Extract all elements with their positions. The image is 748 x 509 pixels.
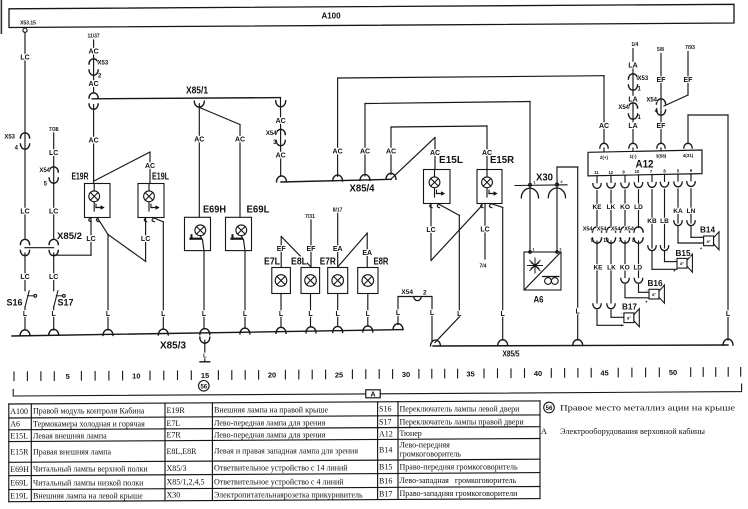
- svg-text:LN: LN: [687, 208, 696, 215]
- wire KA tuner A12 pin 5 to speaker B14: [673, 189, 683, 223]
- svg-text:L: L: [430, 310, 435, 317]
- svg-text:X54: X54: [266, 131, 277, 137]
- svg-text:X53: X53: [4, 135, 15, 141]
- svg-text:Право-передняя громкоговорител: Право-передняя громкоговоритель: [400, 463, 519, 472]
- svg-text:8: 8: [632, 238, 635, 244]
- svg-text:S16: S16: [379, 405, 391, 414]
- svg-text:EF: EF: [277, 246, 287, 253]
- svg-text:LC: LC: [86, 236, 95, 243]
- wire L lamp E69H to bus X85/3: [200, 251, 210, 335]
- lamp E8L rear-left vision lamp: [291, 256, 320, 293]
- bus X85/4: [277, 176, 392, 195]
- svg-text:12: 12: [608, 170, 613, 175]
- svg-text:L: L: [161, 311, 166, 318]
- svg-text:7/4: 7/4: [480, 264, 487, 270]
- wire LC X85/2 to switch S16: [20, 253, 29, 291]
- lamp E19R outer lamp on right roof: [72, 171, 111, 221]
- svg-text:3(58): 3(58): [656, 154, 667, 159]
- svg-text:E69H: E69H: [10, 465, 29, 474]
- svg-text:X85/1: X85/1: [186, 86, 208, 97]
- svg-text:L: L: [202, 311, 207, 318]
- svg-text:Электрооборудования верховной: Электрооборудования верховной кабины: [560, 427, 706, 436]
- connector X53 pin 4: [4, 133, 29, 152]
- svg-text:L: L: [396, 310, 401, 317]
- wire L lamp E8R to bus X85/3: [363, 294, 373, 332]
- svg-text:L: L: [52, 311, 57, 318]
- svg-text:X54: X54: [618, 105, 629, 111]
- svg-text:Право-западняя громкоговорител: Право-западняя громкоговорители: [400, 489, 519, 498]
- svg-text:5: 5: [66, 372, 70, 381]
- page edge mark: [1, 0, 3, 34]
- svg-text:Левая и правая западная лампа: Левая и правая западная лампа для зрения: [214, 447, 358, 456]
- svg-text:E15R: E15R: [490, 155, 515, 166]
- wire L lamp E7R to bus X85/3: [333, 294, 343, 333]
- svg-text:A100: A100: [321, 11, 341, 20]
- wire EA stub 8/17 to lamp E7R: [332, 207, 344, 267]
- svg-text:X85/4: X85/4: [350, 184, 375, 195]
- wire AC bus X85/1 to lamp E19R: [89, 105, 99, 184]
- svg-text:B14: B14: [700, 225, 715, 235]
- svg-text:AC: AC: [599, 123, 609, 130]
- svg-text:Переключатель лампы левой двер: Переключатель лампы левой двери: [400, 405, 521, 414]
- wire KE below connector X54 pin 9: [593, 241, 603, 309]
- svg-text:45: 45: [600, 369, 608, 378]
- svg-text:X85/5: X85/5: [503, 350, 520, 359]
- wire LC lamp E15L pin a with branch to lamp E15R pin a: [426, 204, 482, 261]
- thermobox A6 cold and hot box: [524, 247, 562, 305]
- wire L lamp E7L to bus X85/3: [276, 294, 286, 334]
- svg-text:Читальный лампы низкой полки: Читальный лампы низкой полки: [33, 478, 144, 487]
- svg-text:LC: LC: [141, 236, 150, 243]
- wire ground from X30 pin 2 over to bus X85/5: [557, 167, 583, 346]
- wire L from S17 to bus X85/3: [49, 307, 59, 336]
- wire ground tuner A12 pin 4(31) to bus X85/5: [684, 115, 733, 345]
- wire L lamp E19L pin b to bus X85/3: [153, 218, 169, 336]
- svg-text:E69L: E69L: [10, 478, 28, 487]
- svg-text:9: 9: [591, 238, 594, 244]
- svg-text:LC: LC: [20, 209, 29, 216]
- lamp E8R rear-right vision lamp: [358, 256, 389, 293]
- svg-text:X53.15: X53.15: [20, 20, 36, 26]
- svg-text:20: 20: [268, 371, 276, 380]
- wire LK tuner A12 pin 12 to speaker B17: [607, 190, 616, 227]
- svg-text:E19R: E19R: [167, 406, 186, 415]
- svg-text:E19L: E19L: [10, 491, 28, 500]
- svg-text:B14: B14: [379, 446, 392, 455]
- wire AC bus X85/4 branch to lamp E15L: [391, 138, 440, 180]
- svg-text:4(31): 4(31): [683, 153, 694, 158]
- svg-text:B16: B16: [379, 476, 392, 485]
- svg-text:EA: EA: [362, 250, 372, 257]
- wire L lamp E19R pin b to bus X85/3: [97, 218, 113, 336]
- wire LC from A100 terminal down to connector X85/2 (left branch): [20, 28, 29, 238]
- svg-text:KB: KB: [647, 218, 657, 225]
- wire LD tuner A12 pin 10 to speaker B16: [634, 190, 643, 228]
- svg-text:Ответвительное устройство с 4: Ответвительное устройство с 4 линий: [214, 477, 344, 486]
- svg-text:S17: S17: [58, 298, 74, 308]
- svg-text:AC: AC: [276, 118, 286, 125]
- svg-text:B16: B16: [648, 278, 663, 288]
- svg-text:KE: KE: [593, 265, 603, 272]
- svg-text:Внешняя лампа на левой крыше: Внешняя лампа на левой крыше: [33, 491, 143, 500]
- lamp E69L reading lamp lower bunk: [226, 204, 270, 250]
- svg-text:50: 50: [669, 368, 677, 377]
- svg-text:E19R: E19R: [72, 172, 90, 183]
- lamp E15R right outer lamp: [477, 155, 515, 208]
- svg-text:X85/3: X85/3: [160, 341, 186, 352]
- svg-text:Лево-передная лампа для зрения: Лево-передная лампа для зрения: [214, 419, 326, 428]
- svg-text:8°: 8°: [652, 292, 656, 297]
- speaker B16 rear-left loudspeaker: [625, 278, 664, 304]
- wire EF stub 7/31 to lamp E8L: [304, 214, 316, 268]
- wire LC lamp E19R pin a to connector X85/2: [54, 218, 96, 256]
- svg-text:25: 25: [335, 370, 343, 379]
- svg-text:EF: EF: [307, 246, 317, 253]
- svg-text:X30: X30: [536, 173, 553, 184]
- svg-text:X54: X54: [597, 227, 608, 233]
- svg-text:AC: AC: [89, 49, 99, 56]
- svg-text:Внешняя лампа на правой крыше: Внешняя лампа на правой крыше: [214, 406, 328, 415]
- svg-text:L: L: [308, 311, 313, 318]
- svg-text:A6: A6: [10, 420, 20, 429]
- svg-text:X54: X54: [583, 227, 594, 233]
- svg-text:L: L: [336, 311, 341, 318]
- wire LC X85/2 to switch S17: [49, 253, 58, 291]
- lamp E7R front-right vision lamp: [320, 256, 348, 293]
- svg-text:E19L: E19L: [152, 172, 169, 183]
- svg-text:EF: EF: [684, 77, 694, 84]
- svg-text:B17: B17: [379, 489, 392, 498]
- svg-text:LB: LB: [660, 218, 669, 225]
- connector X54 pin 5: [39, 167, 58, 188]
- wire L lamp E15L pin b to bus X85/5: [435, 204, 462, 343]
- speaker B17 rear-right loudspeaker: [597, 302, 639, 328]
- svg-text:KO: KO: [620, 265, 630, 272]
- svg-text:Левая внешняя лампа: Левая внешняя лампа: [33, 431, 107, 440]
- wire AC branch to lamp E19L: [94, 152, 155, 184]
- svg-text:громкоговоритель: громкоговоритель: [400, 450, 462, 459]
- wire L lamp E15R pin b to bus X85/5: [491, 204, 508, 346]
- svg-text:LC: LC: [480, 227, 489, 234]
- svg-text:5/8: 5/8: [657, 47, 664, 53]
- svg-text:E7L: E7L: [264, 257, 280, 268]
- wire EF from stub 7/93 joining X54 pin 4: [664, 45, 696, 106]
- wire AC bus X85/4 up to feed line for lamp E15R: [386, 126, 492, 179]
- svg-text:11: 11: [594, 170, 599, 175]
- svg-text:10: 10: [132, 372, 140, 381]
- svg-text:L: L: [23, 311, 28, 318]
- connector X54 pin 4: [646, 97, 665, 116]
- svg-text:A100: A100: [10, 407, 28, 416]
- svg-text:1(-): 1(-): [630, 154, 637, 159]
- svg-text:E15R: E15R: [10, 448, 29, 457]
- svg-text:LA: LA: [628, 63, 637, 70]
- wire socket X30 pin 2 to thermobox A6 pin 2: [556, 186, 558, 252]
- svg-text:7/93: 7/93: [685, 45, 695, 51]
- svg-text:X54: X54: [646, 98, 657, 104]
- svg-text:1/4: 1/4: [631, 42, 638, 48]
- svg-text:AC: AC: [333, 149, 343, 156]
- svg-text:+: +: [700, 246, 703, 251]
- tuner A12: [588, 150, 702, 176]
- svg-text:Ответвительное устройство с 14: Ответвительное устройство с 14 линий: [214, 464, 348, 473]
- switch S16 left door lamp switch: [6, 291, 36, 308]
- connector X54 pin 2: [401, 289, 427, 301]
- svg-text:AC: AC: [89, 138, 99, 145]
- svg-text:X53: X53: [98, 61, 109, 67]
- svg-text:X54: X54: [611, 227, 622, 233]
- svg-text:A12: A12: [379, 429, 393, 438]
- ground stub below bus X85/3 at roof metallization point: [200, 337, 210, 362]
- svg-text:B17: B17: [622, 302, 637, 312]
- svg-text:2: 2: [423, 290, 427, 297]
- wire EA branch lamp E7R to lamp E8R: [338, 233, 372, 268]
- bus X85/5 (4-line junction): [431, 340, 729, 359]
- wire LN tuner A12 pin 6 to speaker B14: [687, 189, 696, 223]
- svg-text:AC: AC: [145, 163, 155, 170]
- svg-text:B15: B15: [676, 248, 691, 258]
- svg-text:AC: AC: [89, 81, 99, 88]
- svg-text:Правая внешняя лампа: Правая внешняя лампа: [33, 448, 112, 457]
- svg-text:15: 15: [201, 371, 209, 380]
- connector X53 pin 2: [89, 59, 109, 80]
- wire LC lamp E15R pin a to stub 7/4: [479, 204, 490, 270]
- svg-text:AC: AC: [360, 149, 370, 156]
- svg-text:EF: EF: [657, 77, 667, 84]
- wire KO below connector X54 pin 7: [620, 241, 630, 283]
- svg-text:+: +: [673, 268, 676, 273]
- svg-text:40: 40: [534, 369, 542, 378]
- wire KO tuner A12 pin 9 to speaker B16: [620, 190, 630, 228]
- svg-text:AC: AC: [276, 153, 286, 160]
- svg-text:56: 56: [200, 384, 207, 390]
- speaker B14 front-left loudspeaker: [674, 221, 719, 251]
- svg-text:Лево-западная громкоговорите: Лево-западная громкоговоритель: [400, 476, 517, 485]
- bus X85/3 (14-line junction): [12, 330, 403, 352]
- wire AC feed to tuner A12 pin 2(+): [599, 76, 609, 153]
- svg-text:7: 7: [619, 238, 622, 244]
- svg-text:Читальный лампы верхной полки: Читальный лампы верхной полки: [33, 465, 148, 474]
- wire AC bus X85/4 up to feed line for socket X30: [360, 102, 530, 181]
- svg-text:LK: LK: [607, 204, 616, 211]
- wire AC branch bus X85/1 to lamp E69L: [200, 108, 246, 218]
- switch S17 right door lamp switch: [54, 291, 74, 308]
- svg-text:LK: LK: [607, 265, 616, 272]
- svg-text:E7R: E7R: [167, 431, 182, 440]
- svg-text:B15: B15: [379, 463, 392, 472]
- svg-text:Переключатель лампы правой две: Переключатель лампы правой двери: [400, 417, 525, 426]
- wire AC bus X85/4 up to feed line for tuner A12: [333, 76, 604, 181]
- svg-text:LD: LD: [633, 265, 642, 272]
- svg-text:E8L,E8R: E8L,E8R: [167, 447, 198, 456]
- svg-text:11/37: 11/37: [87, 34, 99, 40]
- wire LD below connector X54 pin 8: [633, 241, 642, 283]
- svg-text:E8L: E8L: [291, 257, 307, 268]
- svg-text:X85/2: X85/2: [57, 231, 82, 242]
- svg-text:X54: X54: [624, 227, 635, 233]
- wire AC from stub 11/37 through connector X53 pin 2: [86, 33, 101, 93]
- wire L lamp E69L to bus X85/3: [240, 251, 250, 334]
- connector on wire at bus X85/1 left end: [89, 93, 98, 109]
- wire socket X30 pin 1 to thermobox A6 pin 1: [529, 186, 531, 252]
- svg-text:56: 56: [546, 406, 553, 412]
- svg-text:AC: AC: [386, 149, 396, 156]
- svg-text:EF: EF: [657, 123, 667, 130]
- legend table: [9, 401, 540, 502]
- svg-text:Лево-передная лампа для зрения: Лево-передная лампа для зрения: [214, 430, 326, 439]
- svg-text:AC: AC: [194, 137, 204, 144]
- svg-text:10: 10: [635, 169, 640, 174]
- svg-text:10: 10: [603, 238, 609, 244]
- svg-text:+: +: [620, 323, 623, 328]
- svg-text:A6: A6: [534, 295, 544, 305]
- wire LA from stub 1/4 through X53 pin 1 and X54 pin 1 to tuner A12 pin 1(-): [628, 42, 639, 152]
- wire AC bus X85/1 through connector X54 pin 3 to bus X85/4: [276, 98, 286, 176]
- speaker B15 front-right loudspeaker: [648, 246, 693, 274]
- lamp E19L outer lamp on left roof: [138, 171, 169, 221]
- svg-text:E15L: E15L: [439, 155, 463, 166]
- svg-text:E7L: E7L: [167, 419, 181, 428]
- wire KB tuner A12 pin 7 to speaker B15: [647, 190, 657, 249]
- legend note 56 roof metallization: [544, 402, 736, 413]
- svg-text:E15L: E15L: [10, 432, 28, 441]
- svg-text:L: L: [366, 311, 371, 318]
- wire KE tuner A12 pin 11 to speaker B17: [592, 191, 602, 228]
- svg-text:35: 35: [466, 370, 474, 379]
- svg-text:2(+): 2(+): [600, 155, 609, 160]
- svg-text:X53: X53: [638, 76, 649, 82]
- svg-text:KE: KE: [592, 204, 602, 211]
- socket X30 cigarette lighter power socket: [515, 172, 567, 198]
- svg-text:Правое место металлиз ации на: Правое место металлиз ации на крыше: [560, 404, 736, 413]
- module A100 cab control module box: [9, 4, 734, 27]
- svg-text:KA: KA: [673, 208, 683, 215]
- svg-text:X54: X54: [401, 289, 413, 296]
- lamp E69H reading lamp upper bunk: [185, 204, 227, 250]
- svg-text:L: L: [279, 311, 284, 318]
- svg-text:8°: 8°: [680, 261, 684, 266]
- svg-text:7/38: 7/38: [49, 127, 59, 133]
- svg-text:X54: X54: [39, 168, 50, 174]
- svg-text:L: L: [726, 311, 731, 318]
- lamp E15L left outer lamp: [424, 155, 464, 208]
- wire lamp E19R pin b branch to lamp E19L pin a: [108, 218, 150, 262]
- svg-text:L: L: [106, 311, 111, 318]
- svg-text:LC: LC: [49, 150, 58, 157]
- connector row X54 pins 9 10 7 8 on speaker wires: [583, 226, 644, 244]
- svg-text:EA: EA: [333, 246, 343, 253]
- svg-text:S16: S16: [6, 298, 22, 308]
- svg-text:Правой модуль контроля Кабина: Правой модуль контроля Кабина: [33, 407, 145, 416]
- svg-text:7/31: 7/31: [305, 214, 315, 220]
- svg-text:Термокамера холодная и горячая: Термокамера холодная и горячая: [33, 420, 145, 429]
- svg-text:E69H: E69H: [203, 205, 226, 216]
- wire AC bus X85/1 to lamp E69H: [194, 101, 204, 217]
- bus X85/1: [92, 85, 280, 99]
- svg-text:+: +: [645, 299, 648, 304]
- legend note A roof cab electric equipment: [541, 426, 706, 436]
- svg-text:E8R: E8R: [374, 257, 390, 268]
- svg-text:E7R: E7R: [320, 257, 337, 268]
- wire L connector X54 pin 2 to bus X85/5: [430, 297, 435, 342]
- wire LK below connector X54 pin 10: [607, 241, 616, 309]
- svg-text:8/17: 8/17: [333, 208, 343, 214]
- wire L from S16 to bus X85/3: [20, 307, 30, 336]
- svg-text:30: 30: [402, 370, 410, 379]
- wire L lamp E8L to bus X85/3: [306, 294, 316, 333]
- wire LC from stub 7/38 down through connector X54 pin 5: [48, 127, 60, 238]
- bracket A roof cab electric equipment extent: [13, 384, 741, 398]
- roof metallization point marker 56 on ruler: [199, 381, 210, 392]
- tuner A12 bottom pin connectors: [593, 174, 695, 189]
- svg-text:L: L: [501, 311, 506, 318]
- svg-text:AC: AC: [235, 137, 245, 144]
- connector X85/2 (4-line junction): [20, 231, 82, 256]
- svg-text:LD: LD: [634, 204, 643, 211]
- svg-text:A: A: [541, 426, 548, 436]
- svg-text:E69L: E69L: [247, 205, 270, 216]
- connector X53 pin 1: [628, 74, 648, 93]
- svg-text:A: A: [370, 391, 375, 398]
- svg-text:S17: S17: [379, 418, 391, 427]
- measuring ruler scale: [14, 368, 741, 382]
- svg-text:Лево-передняя: Лево-передняя: [400, 441, 451, 450]
- svg-text:8°: 8°: [707, 239, 711, 244]
- connector X54 pin 3: [266, 129, 286, 145]
- svg-text:LA: LA: [628, 123, 637, 130]
- svg-text:KO: KO: [620, 204, 630, 211]
- wire LB tuner A12 pin 8 to speaker B15: [660, 189, 669, 248]
- svg-text:X85/1,2,4,5: X85/1,2,4,5: [167, 478, 205, 487]
- svg-text:Тюнер: Тюнер: [400, 429, 422, 438]
- svg-text:L: L: [243, 311, 248, 318]
- svg-text:LC: LC: [49, 209, 58, 216]
- svg-text:LC: LC: [20, 274, 29, 281]
- svg-text:LC: LC: [426, 227, 435, 234]
- svg-text:LC: LC: [20, 55, 29, 62]
- lamp E7L front-left vision lamp: [264, 256, 290, 293]
- connector X54 pin 1: [618, 103, 641, 121]
- wire feed down to socket X30 pin 1: [529, 102, 531, 186]
- wire EF from stub 5/8 through X54 pin 4 to tuner A12 pin 3(58): [656, 47, 666, 152]
- wire EF branch lamp E8L to lamp E7L: [277, 237, 311, 268]
- svg-text:Электропитательнаярозетка прик: Электропитательнаярозетка прикуривитель: [214, 490, 363, 499]
- svg-text:X30: X30: [167, 491, 181, 500]
- wire L bus X85/3 to connector X54 pin 2: [393, 297, 432, 330]
- svg-text:L: L: [576, 309, 581, 316]
- svg-text:8°: 8°: [627, 316, 631, 321]
- svg-text:LC: LC: [49, 274, 58, 281]
- svg-text:X85/3: X85/3: [167, 464, 187, 473]
